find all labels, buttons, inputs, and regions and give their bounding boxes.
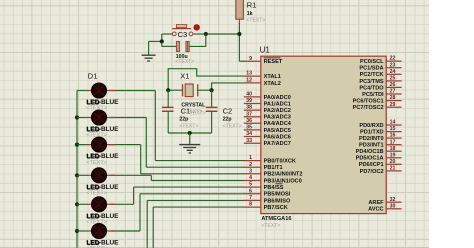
pin 35 (PA5/ADC5) [244,125,291,134]
svg-text:18: 18 [390,146,396,152]
svg-text:ATMEGA16: ATMEGA16 [261,216,291,222]
wire [155,160,244,162]
svg-text:23: 23 [390,62,396,68]
svg-text:PD6/ICP1: PD6/ICP1 [359,162,384,168]
pin 40 (PA0/ADC0) [244,92,291,101]
pin 38 (PA2/ADC2) [244,105,291,114]
svg-text:15: 15 [390,126,396,132]
svg-text:XTAL2: XTAL2 [264,81,281,87]
svg-text:21: 21 [390,166,396,172]
svg-text:R1: R1 [247,1,257,10]
svg-text:32: 32 [390,197,396,203]
wire [146,166,244,168]
wire [211,90,213,107]
svg-text:PA7/ADC7: PA7/ADC7 [264,141,291,147]
pin 22 (PC0/SCL) [360,56,402,65]
junction [166,88,170,92]
push button [172,25,193,36]
junction [210,88,214,92]
capacitor C1 [162,106,198,129]
svg-text:U1: U1 [260,46,271,55]
wire [134,186,245,188]
svg-text:PA1/ADC1: PA1/ADC1 [264,101,291,107]
svg-text:PD5/OC1A: PD5/OC1A [356,156,384,162]
wire [150,175,152,180]
wire [167,112,169,133]
pin 28 (PC6/TOSC1) [353,95,402,104]
wire [153,206,244,208]
svg-text:PB3/AIN1/OC0: PB3/AIN1/OC0 [264,178,302,184]
junction [204,32,208,36]
pin 29 (PC7/TOSC2) [353,102,402,111]
svg-text:PB6/MISO: PB6/MISO [264,198,291,204]
svg-text:29: 29 [390,102,396,108]
svg-text:12: 12 [246,78,252,84]
node XTAL1 wire [168,69,244,91]
wire [145,118,147,168]
svg-text:35: 35 [246,125,252,131]
pin 1 (PB0/T0/XCK) [244,155,296,164]
pin 24 (PC2/TCK) [360,69,402,78]
svg-text:X1: X1 [180,71,189,80]
svg-text:22p: 22p [223,116,232,122]
svg-text:40: 40 [246,92,252,98]
svg-text:<TEXT>: <TEXT> [246,18,265,24]
pin 37 (PA3/ADC3) [244,111,291,120]
svg-text:AREF: AREF [368,200,384,206]
ground [179,145,200,153]
crystal X1 [180,71,206,115]
resistor R1 [236,0,266,24]
wire [151,180,244,182]
pin 26 (PC4/TDO) [359,82,401,91]
svg-text:20: 20 [390,159,396,165]
junction [160,39,164,43]
svg-text:PA0/ADC0: PA0/ADC0 [264,95,291,101]
wire [140,145,142,174]
svg-text:PC6/TOSC1: PC6/TOSC1 [353,99,384,105]
pin 12 (XTAL2) [244,78,281,87]
wire [111,117,147,119]
svg-text:17: 17 [390,139,396,145]
pin 34 (PA6/ADC6) [244,131,291,140]
svg-text:<TEXT>: <TEXT> [261,223,280,229]
button red indicator dot [194,25,200,31]
svg-text:<TEXT>: <TEXT> [175,59,194,65]
wire [238,23,240,62]
wire [139,194,141,231]
pin 33 (PA7/ADC7) [244,138,291,147]
svg-text:PA6/ADC6: PA6/ADC6 [264,134,291,140]
wire [198,89,212,91]
svg-text:28: 28 [390,95,396,101]
node XTAL2 wire [212,83,245,90]
svg-text:PA4/ADC4: PA4/ADC4 [264,121,292,127]
wire [162,33,173,35]
wire [77,90,88,92]
pin 15 (PD1/TXD) [360,126,402,135]
capacitor C2 [206,106,242,129]
junction [188,131,192,135]
svg-text:PC0/SCL: PC0/SCL [360,59,384,65]
svg-text:PB4/SS: PB4/SS [264,185,284,191]
wire [111,203,134,205]
svg-text:PD0/RXD: PD0/RXD [359,123,383,129]
wire [189,45,206,47]
pin 13 (XTAL1) [244,71,281,80]
pin 5 (PB4/SS) [244,182,284,191]
wire [205,34,207,47]
svg-text:PC4/TDO: PC4/TDO [359,85,384,91]
pin 32 (AREF) [368,197,401,206]
svg-text:<TEXT>: <TEXT> [223,123,242,129]
LED D2 [86,110,119,139]
svg-text:PB1/T1: PB1/T1 [264,165,283,171]
pin 16 (PD2/INT0) [359,133,402,142]
svg-text:XTAL1: XTAL1 [264,74,281,80]
wire [77,230,88,232]
pin 3 (PB2/AIN0/INT2) [244,168,303,177]
svg-text:PA2/ADC2: PA2/ADC2 [264,108,291,114]
junction [75,229,79,233]
pin 23 (PC1/SDA) [359,62,401,71]
wire [189,133,191,144]
svg-text:PD3/INT1: PD3/INT1 [359,143,384,149]
svg-text:1: 1 [249,155,252,161]
wire [152,207,154,248]
svg-text:8: 8 [249,202,252,208]
pin 36 (PA4/ADC4) [244,118,292,127]
wire [133,187,135,204]
wire [154,91,156,161]
pin 27 (PC5/TDI) [362,89,401,98]
svg-text:6: 6 [249,188,252,194]
svg-text:27: 27 [390,89,396,95]
LED D5 [86,197,119,226]
pin 2 (PB1/T1) [244,162,283,171]
pin 19 (PD5/OC1A) [356,152,402,161]
svg-text:PC7/TOSC2: PC7/TOSC2 [353,105,384,111]
pin 14 (PD0/RXD) [359,120,401,129]
svg-text:14: 14 [390,120,396,126]
junction [75,202,79,206]
LED D4 [86,168,119,197]
svg-text:9: 9 [249,56,252,62]
junction [75,173,79,177]
pin 20 (PD6/ICP1) [359,159,402,168]
pin 30 (AVCC) [368,203,401,212]
svg-text:5: 5 [249,182,252,188]
wire [211,112,213,133]
svg-text:<TEXT>: <TEXT> [179,123,198,129]
wire [148,41,150,54]
svg-text:25: 25 [390,76,396,82]
pin 7 (PB6/MISO) [244,195,291,204]
pin 39 (PA1/ADC1) [244,98,291,107]
svg-text:PC3/TMS: PC3/TMS [359,79,384,85]
svg-text:13: 13 [246,71,252,77]
svg-text:PA3/ADC3: PA3/ADC3 [264,115,291,121]
wire [77,203,88,205]
wire [239,60,244,62]
svg-text:PC2/TCK: PC2/TCK [360,72,384,78]
LED D1 [86,83,119,112]
wire [193,33,206,35]
wire [161,34,163,47]
svg-text:RESET: RESET [264,59,283,65]
svg-text:AVCC: AVCC [368,207,383,213]
svg-text:PD1/TXD: PD1/TXD [360,130,384,136]
wire LED cathode bus [76,91,78,248]
svg-text:36: 36 [246,118,252,124]
wire [168,132,211,134]
wire [147,199,244,201]
wire [162,45,177,47]
svg-text:D1: D1 [88,71,98,80]
svg-text:39: 39 [246,98,252,104]
junction [75,143,79,147]
svg-text:PC1/SDA: PC1/SDA [359,66,383,72]
svg-text:PA5/ADC5: PA5/ADC5 [264,128,291,134]
LED D3 [86,137,119,166]
wire [77,117,88,119]
pin 18 (PD4/OC1B) [356,146,402,155]
pin 17 (PD3/INT1) [359,139,402,148]
wire [111,90,156,92]
svg-text:PD4/OC1B: PD4/OC1B [356,149,384,155]
pin 25 (PC3/TMS) [359,76,401,85]
svg-text:7: 7 [249,195,252,201]
svg-text:26: 26 [390,82,396,88]
wire [149,40,162,42]
wire [77,144,88,146]
wire [167,90,169,107]
junction [237,32,241,36]
svg-text:38: 38 [246,105,252,111]
svg-text:2: 2 [249,162,252,168]
svg-text:16: 16 [390,133,396,139]
wire [140,193,245,195]
svg-text:22p: 22p [179,116,188,122]
svg-text:PD7/OC2: PD7/OC2 [360,169,384,175]
svg-text:1k: 1k [247,11,253,17]
svg-text:<TEXT>: <TEXT> [86,160,107,166]
wire [77,174,88,176]
junction [75,115,79,119]
svg-text:19: 19 [390,152,396,158]
svg-text:3: 3 [249,168,252,174]
ground [142,55,156,61]
svg-text:<TEXT>: <TEXT> [86,191,107,197]
svg-text:PD2/INT0: PD2/INT0 [359,136,384,142]
wire [146,200,148,248]
svg-text:C2: C2 [223,106,233,115]
wire [111,174,152,176]
wire [168,89,182,91]
pin 4 (PB3/AIN1/OC0) [244,175,302,184]
svg-text:37: 37 [246,111,252,117]
svg-text:<TEXT>: <TEXT> [187,111,206,117]
capacitor C3 [175,30,194,65]
wire [111,230,141,232]
svg-text:30: 30 [390,203,396,209]
microcontroller U1 ATMEGA16 [260,46,387,230]
wire [141,173,245,175]
svg-text:PC5/TDI: PC5/TDI [362,92,384,98]
svg-text:PB2/AIN0/INT2: PB2/AIN0/INT2 [264,172,303,178]
wire [206,33,240,35]
pin 8 (PB7/SCK) [244,202,288,211]
pin 21 (PD7/OC2) [360,166,402,175]
svg-text:24: 24 [390,69,396,75]
pin 6 (PB5/MOSI) [244,188,291,197]
svg-text:PB5/MOSI: PB5/MOSI [264,192,291,198]
svg-text:PB7/SCK: PB7/SCK [264,205,288,211]
LED D6 [86,223,119,248]
svg-text:33: 33 [246,138,252,144]
wire [111,144,141,146]
svg-text:PB0/T0/XCK: PB0/T0/XCK [264,159,296,165]
svg-text:4: 4 [249,175,252,181]
svg-text:C3: C3 [178,30,188,39]
svg-text:34: 34 [246,131,252,137]
pin 9 (RESET) [244,56,283,65]
svg-text:22: 22 [390,56,396,62]
